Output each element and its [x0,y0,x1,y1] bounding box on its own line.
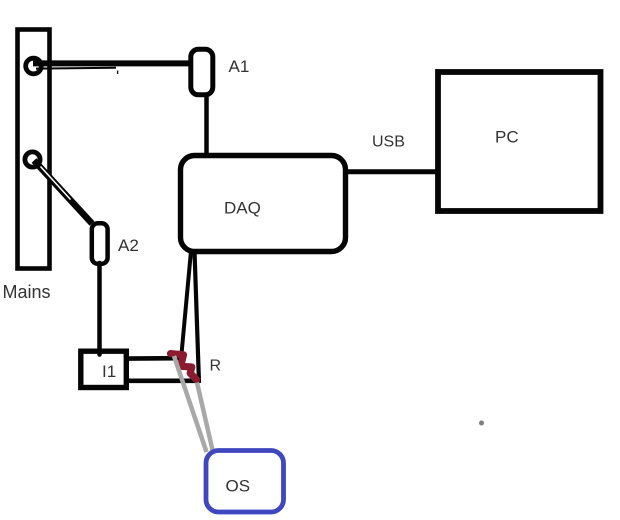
wire DAQ to PC (USB cable) [346,169,438,174]
wire DAQ bottom to bottom rail (right) [195,251,200,383]
wire: white split in diagonal lead [41,167,71,200]
instrument I1 box [81,351,127,387]
wire I1 top to resistor R [126,356,181,361]
wire: plug lead from socket 1 to A1 (thick) [33,60,190,66]
svg-text:OS: OS [226,477,251,496]
svg-text:PC: PC [495,128,519,147]
svg-text:Mains: Mains [3,282,51,302]
svg-text:A1: A1 [229,57,250,76]
mains outlet strip (Mains box) [18,30,50,269]
svg-text:R: R [210,358,222,375]
svg-text:DAQ: DAQ [224,199,261,218]
DAQ box [181,156,346,252]
wire A1 to DAQ [204,94,209,156]
wire: thin parallel lead strand below [36,67,116,70]
wire I1 bottom rail [126,378,200,383]
stray tick mark on lead [117,71,119,75]
wire DAQ bottom to resistor (left diagonal) [181,251,191,356]
svg-text:I1: I1 [102,362,116,381]
wire: plug lead from socket 2 to A2 (thick diagonal) [34,161,92,224]
wire A2 to I1 [97,263,102,355]
resistor R (red zigzag) [171,354,197,380]
oscilloscope OS box (blue) [206,451,284,513]
stray gray dot [479,421,484,426]
gray wire left from R to OS [174,356,207,452]
socket circle 2 [25,152,40,167]
gray wire right from R to OS [197,383,213,451]
svg-text:USB: USB [372,134,405,151]
svg-text:A2: A2 [118,236,139,255]
socket circle 1 [26,58,42,74]
PC box [438,72,601,211]
adapter A1 box [191,49,213,95]
adapter A2 box [92,223,108,263]
